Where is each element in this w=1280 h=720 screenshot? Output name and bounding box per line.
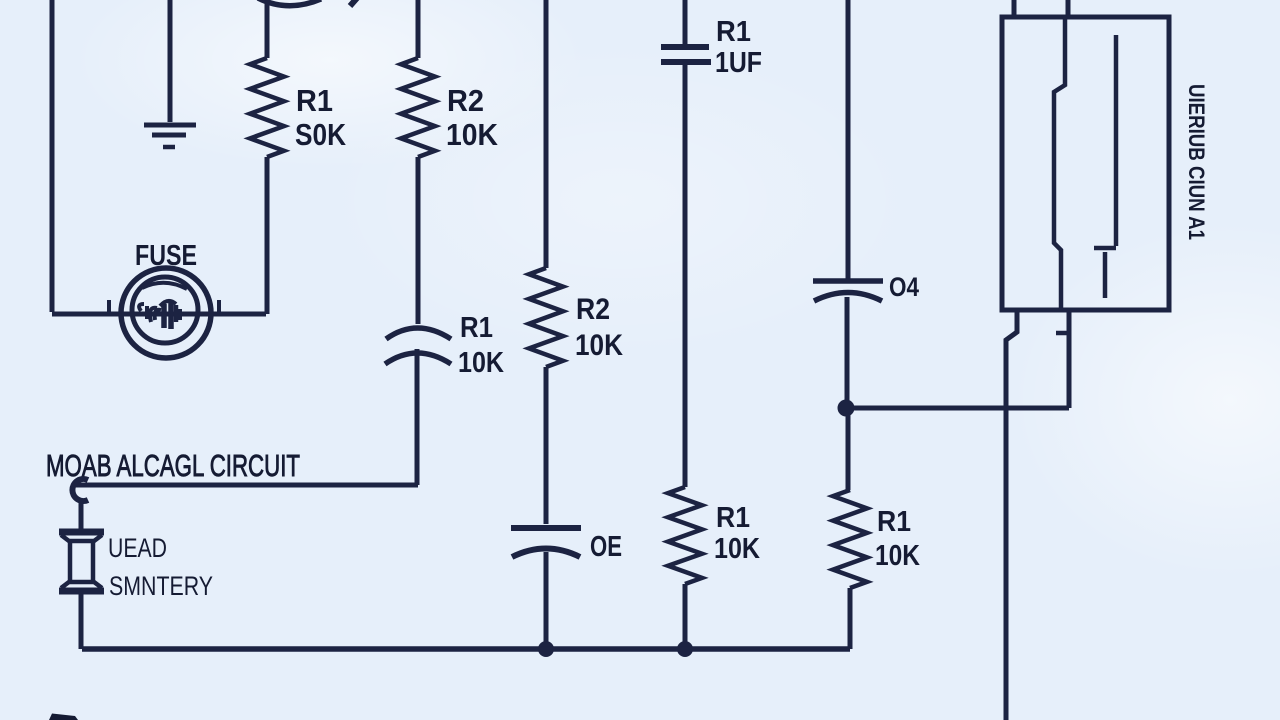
wire: top to R2 (middle column) bbox=[544, 0, 549, 268]
capacitor OE bbox=[511, 528, 581, 557]
svg-text:10K: 10K bbox=[875, 540, 920, 572]
wire: left rail bbox=[50, 0, 55, 312]
IC inner line A bbox=[1054, 17, 1065, 310]
svg-text:R1: R1 bbox=[877, 506, 911, 538]
fuse F1 outer circle bbox=[121, 268, 211, 358]
svg-text:SMNTERY: SMNTERY bbox=[109, 571, 213, 601]
battery hook curl bbox=[72, 479, 88, 501]
IC top pin stubs bbox=[1012, 0, 1017, 17]
wire: R1 to ground bus corner bbox=[848, 588, 853, 649]
fuse element squiggle bbox=[139, 301, 180, 329]
svg-text:UEAD: UEAD bbox=[108, 533, 167, 563]
junction dot bbox=[677, 641, 693, 657]
wire: horizontal to battery hook bbox=[72, 483, 418, 488]
svg-text:S0K: S0K bbox=[295, 117, 347, 152]
wire: R1 to ground bus bbox=[683, 584, 688, 649]
wire: fuse horizontal bbox=[52, 312, 266, 317]
svg-text:O4: O4 bbox=[889, 272, 919, 302]
wire: top to capacitor 1UF bbox=[683, 0, 688, 46]
battery BT1 (spool symbol) bbox=[59, 532, 104, 591]
wire: capacitor OE to ground bus bbox=[544, 552, 549, 649]
svg-text:OE: OE bbox=[590, 531, 622, 563]
ground symbol bbox=[144, 125, 196, 147]
capacitor C 1UF bbox=[661, 47, 711, 62]
svg-text:FUSE: FUSE bbox=[135, 240, 197, 272]
wire: capacitor down to battery wire bbox=[415, 349, 420, 485]
svg-text:10K: 10K bbox=[714, 533, 760, 565]
wire: node from lamp to R1 bbox=[265, 3, 270, 58]
lamp circle arc (top, cut off) bbox=[258, 0, 321, 6]
resistor R1 10K (col 850) bbox=[833, 490, 867, 588]
capacitor O4 (polarized) bbox=[813, 281, 883, 301]
svg-text:R1: R1 bbox=[296, 83, 333, 118]
wire: ground column bbox=[168, 0, 173, 122]
IC pin tick bbox=[1056, 331, 1069, 336]
junction dot bbox=[538, 641, 554, 657]
fuse inner circle bbox=[132, 277, 198, 343]
wire: hook to battery bbox=[79, 503, 84, 529]
small arc stub bbox=[350, 0, 357, 6]
resistor R1 10K (col 685) bbox=[668, 487, 702, 584]
wire: R2 to capacitor OE bbox=[544, 367, 549, 524]
junction dot node bbox=[838, 400, 855, 417]
wire: battery to ground bus bbox=[79, 594, 84, 649]
wire: node to IC pin (horizontal) bbox=[846, 406, 1069, 411]
wire: top to R2 bbox=[416, 0, 421, 58]
svg-text:R1: R1 bbox=[460, 312, 493, 344]
wire: R2 down to curved capacitor bbox=[416, 157, 421, 324]
fuse right terminal tick bbox=[217, 300, 221, 313]
svg-text:R2: R2 bbox=[447, 83, 484, 118]
svg-text:10K: 10K bbox=[446, 117, 499, 152]
fuse left terminal tick bbox=[107, 300, 111, 313]
IC right pin down bbox=[1067, 310, 1072, 408]
wire: capacitor to R1 bbox=[683, 64, 688, 487]
resistor R2 10K (middle) bbox=[529, 268, 563, 367]
resistor R1 20K bbox=[250, 58, 284, 157]
IC left pin down bbox=[1006, 310, 1017, 720]
svg-text:10K: 10K bbox=[575, 329, 623, 362]
IC U1 box bbox=[1002, 17, 1169, 310]
wire: capacitor O4 to node bbox=[845, 297, 850, 408]
wire: R1 to fuse bbox=[265, 157, 270, 314]
svg-text:10K: 10K bbox=[458, 347, 504, 379]
IC inner line B bbox=[1114, 35, 1119, 246]
svg-text:R1: R1 bbox=[716, 502, 750, 534]
svg-text:R2: R2 bbox=[576, 293, 610, 326]
resistor R2 10K bbox=[401, 58, 435, 157]
svg-text:MOAB ALCAGL CIRCUIT: MOAB ALCAGL CIRCUIT bbox=[46, 448, 300, 483]
wire: node down to R1 bbox=[846, 408, 851, 490]
svg-text:R1: R1 bbox=[716, 16, 751, 48]
svg-text:UIERIUB CIUN A1: UIERIUB CIUN A1 bbox=[1184, 84, 1209, 240]
svg-text:1UF: 1UF bbox=[715, 47, 762, 79]
wire: top to capacitor O4 bbox=[846, 0, 851, 280]
capacitor R1 10K (curved plates) bbox=[385, 328, 451, 364]
wire: ground bus bottom bbox=[82, 646, 850, 652]
bottom-left cut glyph bbox=[49, 714, 78, 720]
